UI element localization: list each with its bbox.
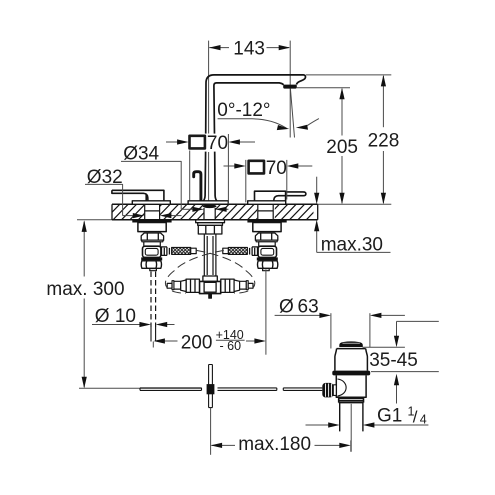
deck bottom line	[112, 219, 318, 221]
svg-text:G1: G1	[377, 405, 402, 426]
pop-up rod dashed (diameter 10)	[151, 272, 156, 328]
white break behind square-70 left	[188, 134, 229, 152]
dimension max.180 right extension	[350, 440, 352, 451]
svg-text:0°-12°: 0°-12°	[217, 100, 270, 121]
rod cross fitting block	[207, 384, 215, 394]
svg-text:63: 63	[298, 296, 319, 317]
left valve dark band	[141, 257, 162, 260]
svg-text:70: 70	[207, 133, 228, 154]
left valve hose end fitting	[191, 248, 197, 253]
dimension max.180	[212, 444, 236, 446]
svg-text:228: 228	[368, 130, 400, 151]
max.300 bottom reference line	[79, 387, 202, 389]
dimension square-70 right arrows	[224, 165, 236, 167]
horizontal pop-up actuating rod	[140, 388, 202, 391]
left handle shank through deck	[145, 204, 160, 220]
left valve outlet flange stack	[161, 247, 169, 256]
diameter 10 leader and arrows	[92, 324, 140, 326]
dimension 35-45 top arrow	[397, 320, 439, 322]
right valve chamfer nut	[255, 233, 277, 240]
max.30 lower arrow and leader	[316, 231, 318, 253]
svg-text:max. 300: max. 300	[46, 279, 124, 300]
dimension square-70 left arrows	[166, 141, 178, 143]
right valve hose end fitting	[223, 248, 229, 253]
drain body	[336, 375, 366, 397]
dimension 200 +140/-60	[164, 340, 178, 342]
right valve braided hose	[228, 247, 247, 254]
right valve dark band	[257, 257, 278, 260]
right valve elbow	[258, 246, 276, 257]
deck top line	[112, 203, 318, 205]
dimension 205 line and arrows	[341, 89, 343, 136]
right handle shank through deck	[258, 204, 273, 220]
svg-text:/: /	[413, 407, 418, 426]
thread label leader and arrows	[374, 424, 429, 426]
center supply pipe	[204, 234, 216, 276]
diameter 34 leader	[121, 161, 181, 209]
svg-text:200: 200	[181, 332, 213, 353]
left valve elbow	[143, 246, 161, 257]
deck hatching	[104, 204, 331, 221]
right handle base plate	[248, 201, 286, 205]
left handle body	[112, 190, 164, 201]
dimension square-70 right extension lines	[245, 160, 247, 202]
drain rod knob	[322, 383, 333, 398]
dimension 228 line and arrows	[382, 76, 384, 127]
right handle body and lever	[255, 191, 306, 201]
diameter 32 leader	[85, 184, 123, 215]
spout base plate	[188, 201, 228, 204]
drain body bottom bands	[339, 397, 364, 402]
deck right edge	[317, 204, 319, 220]
right valve thin band	[256, 240, 277, 242]
left valve black band under base plate	[132, 220, 171, 223]
svg-text:max.180: max.180	[238, 434, 311, 455]
spout outer outline	[203, 75, 305, 201]
right valve cylinder	[259, 242, 276, 246]
spout inner outline	[214, 83, 284, 201]
spout shank through deck	[204, 208, 215, 220]
spout base ellipse	[203, 205, 217, 209]
hose routing dashed curve right	[196, 250, 254, 293]
dimension 35-45 extension lines	[363, 346, 405, 348]
right valve black band under base plate	[247, 220, 286, 223]
center tee bottom pin	[209, 294, 212, 299]
svg-text:143: 143	[233, 38, 265, 59]
pop-up rod hook behind spout	[194, 172, 201, 201]
left valve braided hose	[172, 247, 191, 254]
dimension square-70 right: square symbol	[249, 161, 264, 174]
center shank hex nut	[198, 225, 222, 234]
center tee left fittings	[186, 279, 199, 292]
left valve tip	[150, 269, 157, 271]
left valve chamfer nut	[141, 233, 163, 240]
left valve thin band	[142, 240, 163, 242]
angle right arc	[307, 119, 319, 126]
dimension 228 extension line (spout top level)	[306, 74, 392, 76]
svg-text:70: 70	[266, 158, 287, 179]
left handle base plate	[132, 201, 170, 205]
dimension 143 extension line right / 0-degree line	[289, 41, 291, 138]
left valve bottom hex nut	[141, 261, 161, 269]
svg-text:205: 205	[326, 137, 358, 158]
dimension 205 extension line (aerator level)	[297, 87, 350, 89]
max.300 dimension line and arrows	[83, 222, 85, 277]
spout 12-degree tilted line	[290, 89, 294, 138]
dimension 143 line and arrows	[209, 47, 229, 49]
dimension square-70 left: square symbol	[190, 136, 205, 149]
svg-text:max.30: max.30	[321, 234, 383, 255]
left valve body box	[138, 223, 166, 232]
rod cross fitting vertical pin	[209, 365, 213, 408]
center tee right fittings	[221, 279, 234, 292]
center tee collar	[203, 276, 217, 281]
left valve cylinder	[144, 242, 161, 246]
svg-text:Ø: Ø	[279, 296, 294, 317]
diameter 32 hole arrows	[123, 215, 134, 217]
center shank step flange	[196, 220, 225, 223]
dimension square-70 left extension lines	[189, 151, 191, 201]
center tee block	[200, 281, 221, 293]
drain tailpipe	[340, 403, 363, 432]
angle leader underline and left arc	[218, 119, 287, 128]
diameter 34 hole arrows	[181, 208, 193, 210]
drain pop-up plug dome	[339, 341, 363, 347]
diameter 63 extension lines	[330, 313, 332, 348]
drain flare cone	[335, 349, 368, 371]
right valve tip	[263, 269, 270, 271]
svg-text:- 60: - 60	[220, 339, 242, 353]
max.30 upper arrow	[316, 177, 318, 193]
right valve outlet flange stack	[250, 247, 258, 256]
hose routing dashed curve left	[165, 250, 223, 293]
dimension 143 extension line left	[208, 41, 210, 134]
svg-text:35-45: 35-45	[369, 350, 418, 371]
diameter 63 leader and arrows	[275, 314, 321, 316]
right valve body box	[253, 223, 281, 232]
spout aerator block	[283, 85, 297, 89]
drain gasket flange	[332, 371, 370, 376]
center line below cross	[210, 408, 212, 455]
deck left edge	[111, 204, 113, 220]
svg-text:Ø 10: Ø 10	[95, 306, 136, 327]
right valve bottom hex nut	[258, 261, 278, 269]
drain tailpipe centerline	[350, 404, 352, 452]
deck bottom extension to left	[77, 219, 112, 221]
dimension 35-45 bottom arrow	[396, 385, 398, 404]
dimension 200 right extension line	[265, 270, 267, 355]
